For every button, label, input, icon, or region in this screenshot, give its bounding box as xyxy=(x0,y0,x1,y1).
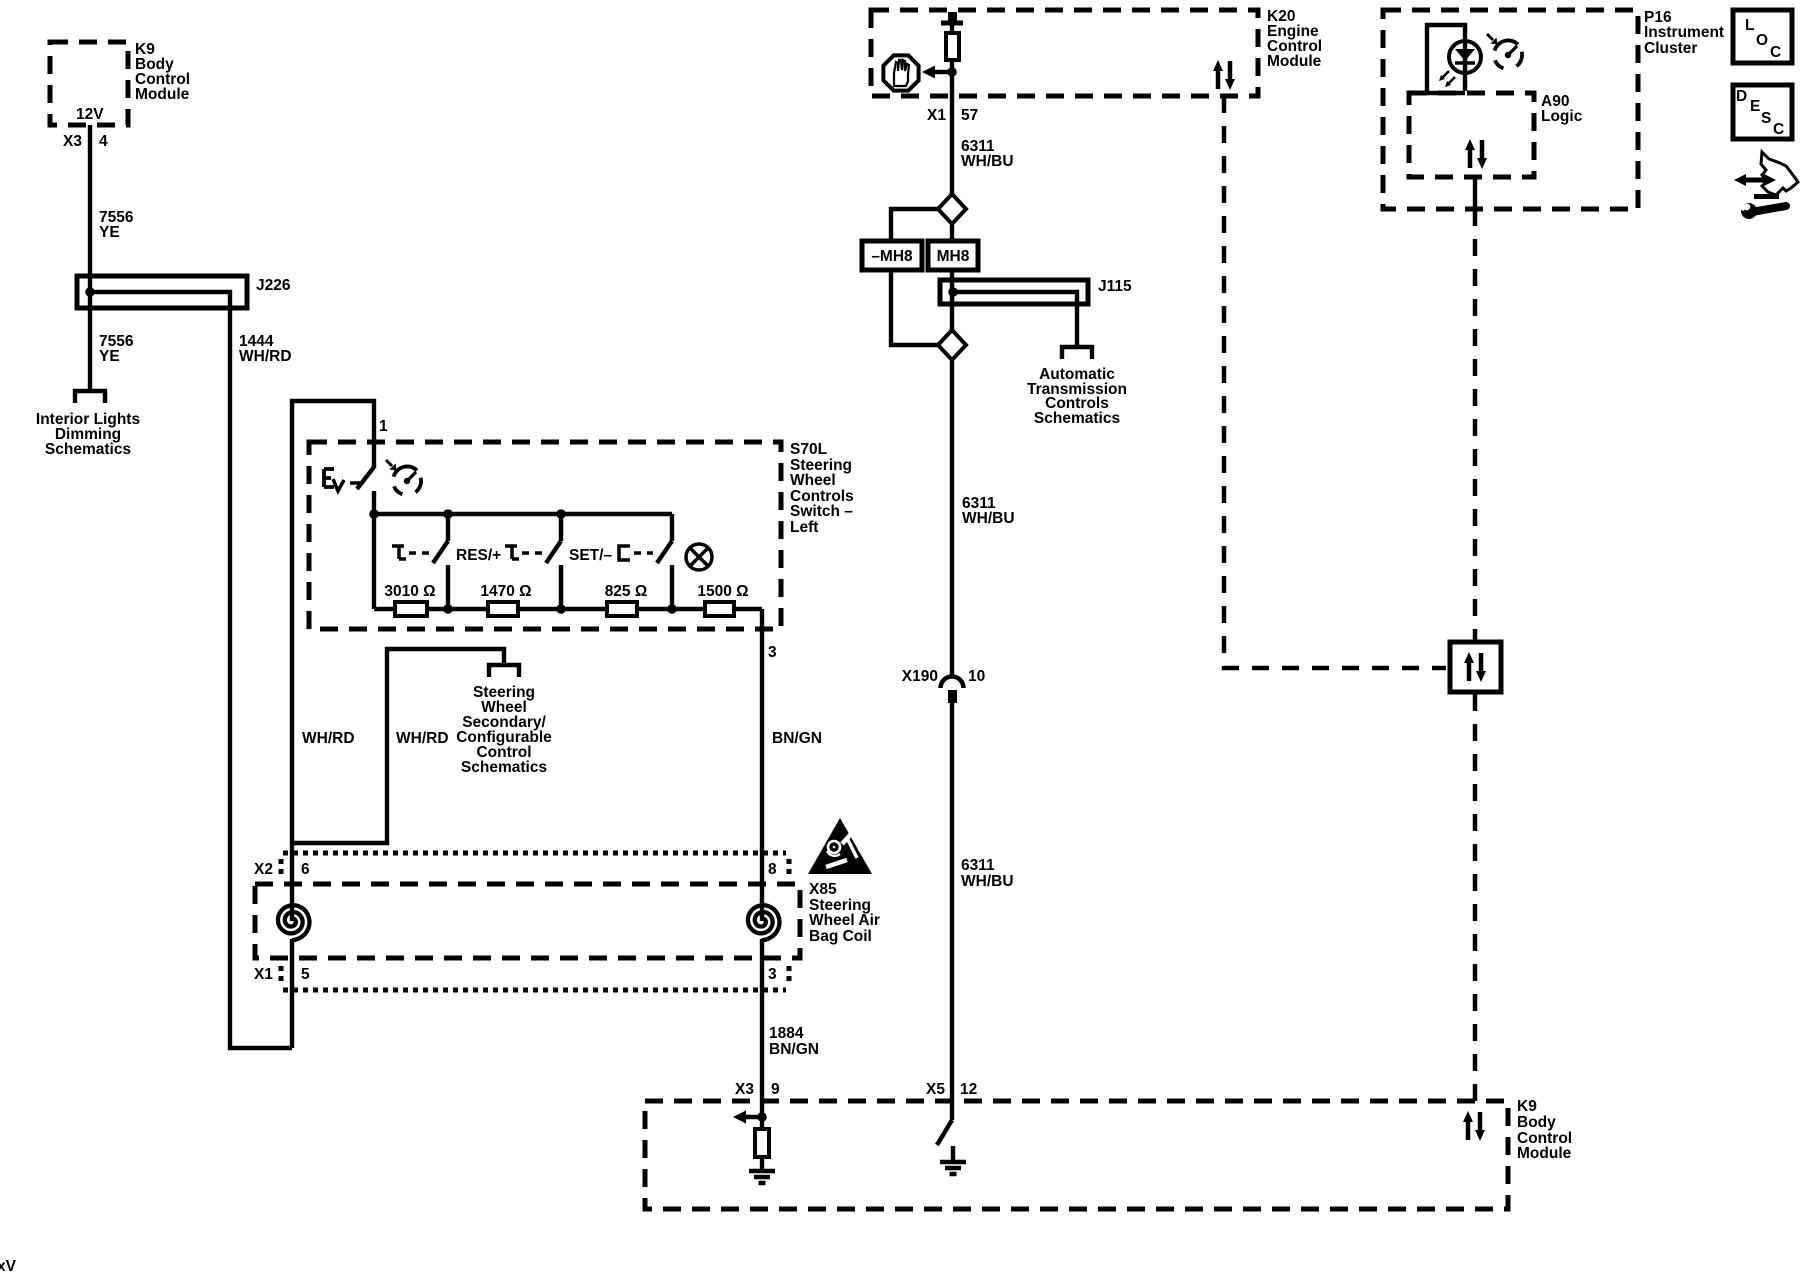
svg-text:WH/RD: WH/RD xyxy=(302,730,355,747)
svg-text:Module: Module xyxy=(1517,1145,1572,1162)
serial data gateway box xyxy=(1450,642,1501,692)
svg-text:YE: YE xyxy=(99,224,120,241)
switch B mechanical dashes xyxy=(522,551,542,555)
svg-text:Body: Body xyxy=(1517,1114,1556,1131)
connector tick X1 right xyxy=(787,966,792,984)
switch B actuator bracket xyxy=(505,546,519,559)
junction dot in J115 xyxy=(948,287,958,297)
serial data symbol K20 xyxy=(1213,60,1235,90)
svg-text:X3: X3 xyxy=(63,133,82,150)
wire coil left bottom to 1444 bar xyxy=(290,939,294,1048)
svg-text:WH/RD: WH/RD xyxy=(239,348,292,365)
svg-text:X2: X2 xyxy=(254,861,273,878)
wire LED loop xyxy=(1427,25,1465,93)
svg-text:Bag Coil: Bag Coil xyxy=(809,928,872,945)
junction dots on resistor line xyxy=(443,604,453,614)
module A90 Logic dashed box xyxy=(1409,93,1534,177)
switch A lower stub xyxy=(446,565,450,609)
switch B lower stub xyxy=(559,565,563,609)
wire S70L pin 1 loop down to air bag coil X2-6 xyxy=(292,401,374,921)
switch A upper stub xyxy=(446,514,450,541)
icon Ev actuator for main cruise switch xyxy=(324,469,334,487)
wire secondary controls branch xyxy=(293,649,504,843)
svg-text:BN/GN: BN/GN xyxy=(769,1041,819,1058)
off-page connector Steering Wheel Secondary xyxy=(489,665,519,677)
wire resistor to ground xyxy=(760,1157,764,1170)
connector tick X1 left xyxy=(279,966,284,984)
svg-text:C: C xyxy=(1770,44,1781,61)
connector line X2 dotted xyxy=(283,851,786,856)
resistor internal K9 xyxy=(755,1129,769,1157)
module K9 Body Control Module (bottom) dashed box xyxy=(645,1101,1508,1209)
svg-text:K9: K9 xyxy=(1517,1098,1537,1115)
svg-text:3010 Ω: 3010 Ω xyxy=(384,583,435,600)
module K9 Body Control Module (top left) dashed box xyxy=(50,42,128,125)
splice pack J226 xyxy=(77,276,247,308)
connector line X1 dotted xyxy=(283,988,786,993)
main cruise on/off switch blade xyxy=(357,467,374,489)
svg-text:xV: xV xyxy=(0,1258,17,1275)
svg-text:X1: X1 xyxy=(927,107,946,124)
icon stop hand octagon xyxy=(883,55,918,90)
svg-text:4: 4 xyxy=(99,133,108,150)
switch internal K9 blade xyxy=(937,1120,952,1145)
junction dot BN/GN in K9 xyxy=(757,1112,767,1122)
svg-text:9: 9 xyxy=(771,1081,780,1098)
svg-text:12: 12 xyxy=(960,1081,977,1098)
connector tick X2 right xyxy=(787,859,792,878)
svg-text:6: 6 xyxy=(301,861,310,878)
option box -MH8 xyxy=(862,241,922,270)
connector tick X2 left xyxy=(279,859,284,878)
icon arrow outline xyxy=(1761,152,1798,195)
svg-text:SET/–: SET/– xyxy=(569,547,612,564)
wire 6311 down to X190 xyxy=(950,360,954,676)
wire J226 internal bus to 1444 branch xyxy=(90,292,292,1048)
serial data dashed line gateway to K9 xyxy=(1473,694,1478,1101)
switch C actuator bracket xyxy=(619,546,630,560)
wire main through MH8 xyxy=(950,224,954,330)
switch C blade xyxy=(657,541,672,563)
junction dot xyxy=(947,67,957,77)
svg-text:Schematics: Schematics xyxy=(461,759,547,776)
wire from B+ through resistor to X1-57 xyxy=(950,25,954,194)
svg-text:J115: J115 xyxy=(1098,278,1132,295)
svg-text:1: 1 xyxy=(379,418,388,435)
wire resistor ladder bottom line xyxy=(374,607,762,611)
resistor internal K20 xyxy=(946,33,959,60)
mechanical link dash of main switch xyxy=(350,481,360,485)
svg-text:WH/BU: WH/BU xyxy=(962,510,1015,527)
icon LOC box xyxy=(1733,10,1792,63)
svg-text:WH/RD: WH/RD xyxy=(396,730,449,747)
svg-text:Switch –: Switch – xyxy=(790,503,853,520)
svg-text:1500 Ω: 1500 Ω xyxy=(697,583,748,600)
wire -MH8 branch xyxy=(891,209,938,345)
svg-text:D: D xyxy=(1736,88,1747,105)
air bag coil left spiral xyxy=(278,905,310,940)
switch A blade xyxy=(433,541,448,563)
svg-text:Left: Left xyxy=(790,519,818,536)
switch C upper stub xyxy=(670,514,674,541)
wire arrow to stop icon xyxy=(934,70,952,74)
icon wrench xyxy=(1735,197,1786,220)
svg-text:RES/+: RES/+ xyxy=(456,547,501,564)
icon lamp in S70L xyxy=(686,544,712,570)
wire 7556 YE from K9 X3-4 down through J226 to off-page xyxy=(88,125,92,390)
icon SIR warning triangle xyxy=(808,818,872,874)
svg-text:X3: X3 xyxy=(735,1081,754,1098)
resistor 3010 ohm xyxy=(395,602,427,616)
svg-text:X190: X190 xyxy=(902,668,938,685)
svg-text:Wheel Air: Wheel Air xyxy=(809,912,880,929)
icon double arrow xyxy=(1734,174,1776,186)
svg-text:WH/BU: WH/BU xyxy=(961,873,1014,890)
switch A mechanical dashes xyxy=(409,551,429,555)
svg-text:1470 Ω: 1470 Ω xyxy=(480,583,531,600)
serial data symbol gateway xyxy=(1464,652,1486,682)
wire coil right bottom down to K9 xyxy=(760,939,764,1129)
icon cruise gauge in S70L xyxy=(386,460,421,494)
switch B blade xyxy=(546,541,561,563)
svg-text:S: S xyxy=(1761,110,1771,127)
splice pack J115 xyxy=(940,280,1088,304)
svg-text:E: E xyxy=(1750,98,1760,115)
serial data symbol A90 xyxy=(1465,139,1487,169)
svg-text:Wheel: Wheel xyxy=(790,472,836,489)
svg-text:O: O xyxy=(1756,32,1768,49)
B+ supply symbol xyxy=(941,21,963,26)
switch C mechanical dashes xyxy=(634,551,653,555)
svg-text:5: 5 xyxy=(301,966,310,983)
switch B upper stub xyxy=(559,514,563,541)
junction dots on bus xyxy=(369,509,379,519)
resistor 825 ohm xyxy=(607,602,637,616)
svg-text:3: 3 xyxy=(768,644,777,661)
wire left branch bus to resistor line xyxy=(372,514,376,609)
wire arrow branch in K9 xyxy=(744,1115,762,1119)
off-page connector Automatic Transmission xyxy=(1062,347,1092,359)
svg-text:8: 8 xyxy=(768,861,777,878)
svg-text:Instrument: Instrument xyxy=(1644,24,1724,41)
svg-text:12V: 12V xyxy=(76,106,104,123)
in-line connector X190 xyxy=(941,677,964,689)
svg-text:C: C xyxy=(1773,121,1784,138)
junction dot in J226 xyxy=(85,287,95,297)
svg-text:X1: X1 xyxy=(254,966,273,983)
svg-text:S70L: S70L xyxy=(790,441,827,458)
wire X190 down to X5-12 xyxy=(950,703,954,1120)
icon cruise gauge in P16 xyxy=(1487,34,1522,68)
svg-text:X5: X5 xyxy=(926,1081,945,1098)
ground (K9 right) xyxy=(940,1162,966,1174)
ground (K9 left) xyxy=(749,1171,775,1183)
svg-text:J226: J226 xyxy=(256,277,291,294)
svg-text:BN/GN: BN/GN xyxy=(772,730,822,747)
svg-text:1884: 1884 xyxy=(769,1025,804,1042)
svg-text:3: 3 xyxy=(768,966,777,983)
svg-text:Module: Module xyxy=(135,86,190,103)
svg-text:X85: X85 xyxy=(809,881,837,898)
wire S70L pin 3 down to coil X2-8 xyxy=(760,609,764,921)
LED indicator xyxy=(1439,41,1481,91)
resistor 1500 ohm xyxy=(705,602,734,616)
air bag coil right spiral xyxy=(748,905,780,940)
svg-text:Logic: Logic xyxy=(1541,108,1583,125)
serial data dashed line P16 to gateway xyxy=(1473,209,1478,640)
option box MH8 xyxy=(928,241,978,270)
svg-text:MH8: MH8 xyxy=(937,248,970,265)
wire J115 internal branch to transmission xyxy=(953,292,1077,345)
svg-text:10: 10 xyxy=(968,668,985,685)
svg-text:WH/BU: WH/BU xyxy=(961,153,1014,170)
off-page connector Interior Lights xyxy=(75,391,105,403)
svg-text:Cluster: Cluster xyxy=(1644,40,1697,57)
switch S70L box dashed xyxy=(309,442,781,629)
diamond pass-through upper xyxy=(938,194,966,224)
svg-text:825 Ω: 825 Ω xyxy=(605,583,648,600)
serial data dashed line from K20 xyxy=(1224,96,1446,668)
wire A90 to P16 edge xyxy=(1473,177,1477,209)
resistor 1470 ohm xyxy=(488,602,518,616)
module X85 Steering Wheel Air Bag Coil dashed box xyxy=(255,884,800,958)
wire switch to ground stub xyxy=(951,1146,955,1162)
switch C lower stub xyxy=(670,565,674,609)
diamond pass-through lower xyxy=(938,330,966,360)
svg-text:Schematics: Schematics xyxy=(1034,410,1120,427)
wire lower stub of main switch to bus xyxy=(372,491,376,514)
svg-text:57: 57 xyxy=(961,107,978,124)
svg-text:–MH8: –MH8 xyxy=(871,248,913,265)
module K20 Engine Control Module dashed box xyxy=(871,10,1258,96)
svg-text:L: L xyxy=(1745,17,1754,34)
svg-text:YE: YE xyxy=(99,348,120,365)
module P16 Instrument Cluster dashed box xyxy=(1383,10,1638,209)
svg-text:6311: 6311 xyxy=(961,857,995,874)
wire bus of switch ladder xyxy=(374,512,672,516)
icon DESC box xyxy=(1733,85,1792,139)
svg-text:Schematics: Schematics xyxy=(45,441,131,458)
serial data symbol K9 xyxy=(1463,1111,1485,1141)
switch A actuator bracket xyxy=(392,546,406,559)
svg-text:Module: Module xyxy=(1267,53,1322,70)
